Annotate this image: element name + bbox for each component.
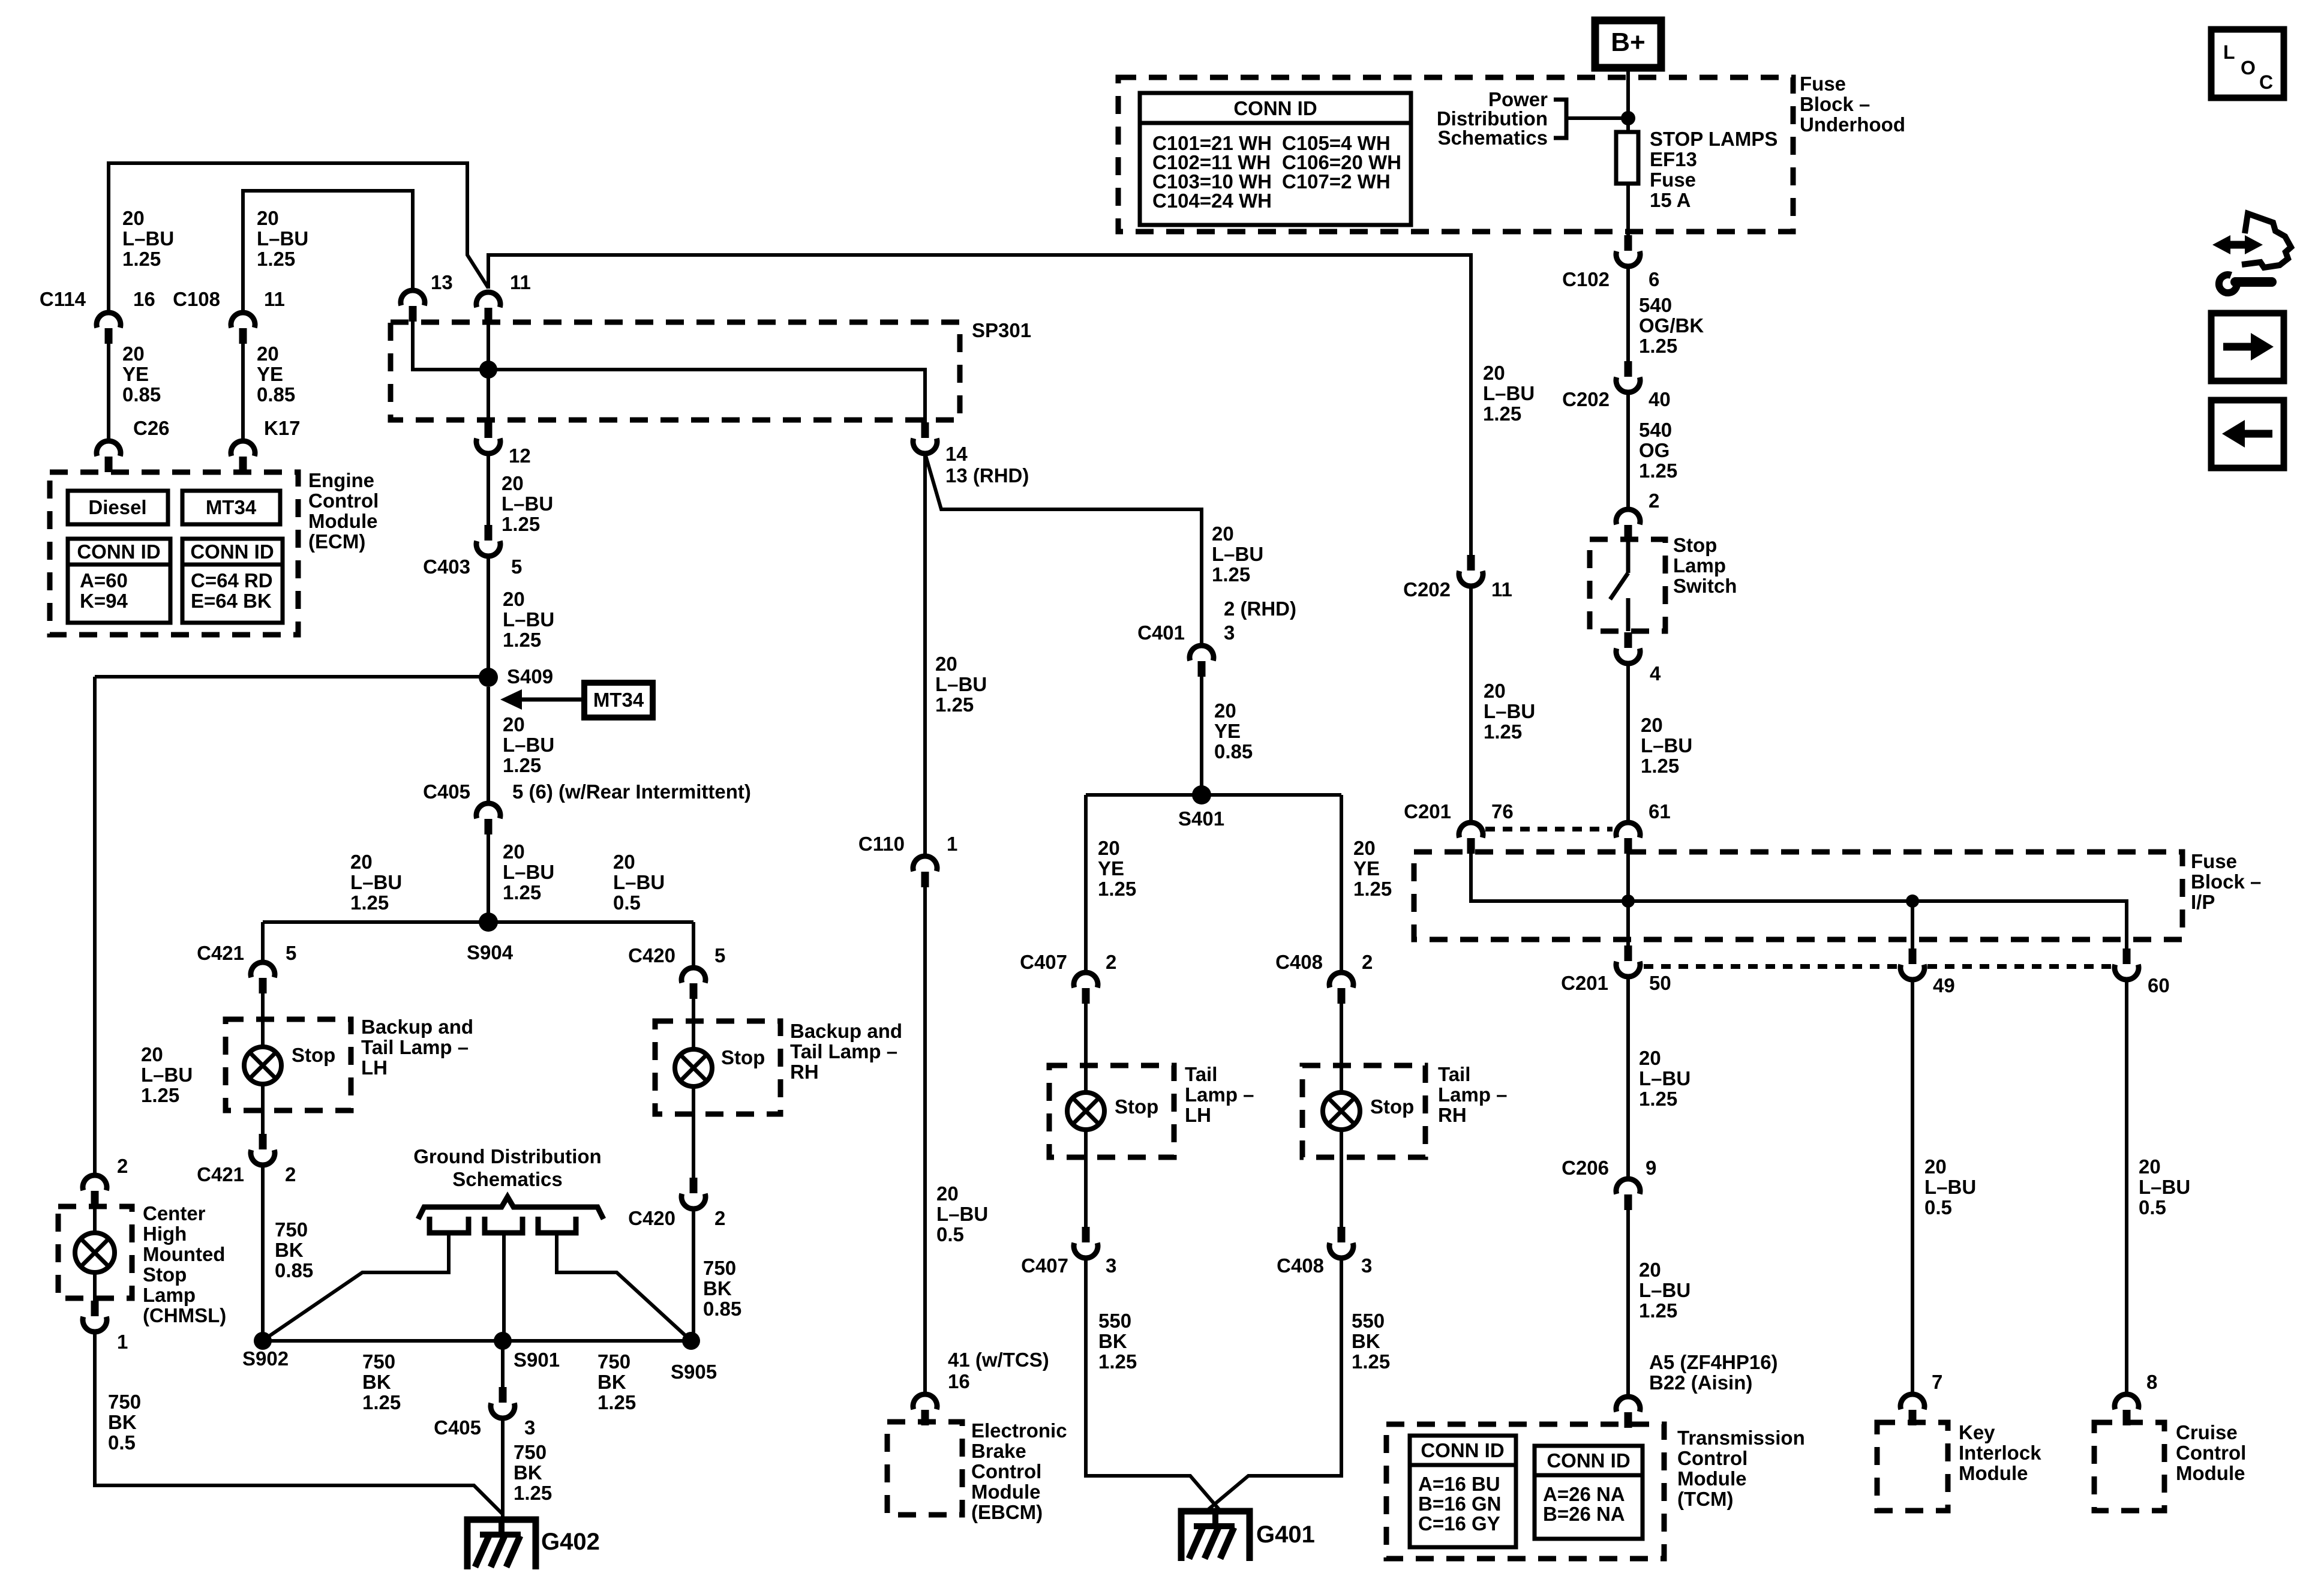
svg-text:540: 540 [1639,419,1672,441]
junction SP301 internal [479,361,497,379]
svg-text:High: High [143,1223,187,1245]
wire SP301 internal bus [413,322,925,422]
svg-text:0.5: 0.5 [1924,1196,1952,1218]
connector C201 pin 61 [1616,822,1640,854]
icon box arrow left [2211,400,2284,468]
svg-text:1.25: 1.25 [597,1391,636,1413]
switch box Stop Lamp Switch [1590,539,1665,631]
svg-text:MT34: MT34 [593,689,644,711]
table CONN ID (Diesel) [68,539,170,623]
svg-text:16: 16 [948,1370,970,1392]
connector TCM [1616,1397,1640,1428]
connector C420 pin 2 [681,1178,705,1209]
lamp Stop (backup/tail LH) [244,1047,281,1084]
wire S904 to C420-5 [692,922,695,968]
lamp CHMSL [75,1233,115,1272]
wire C201-50 to C206 [1626,978,1630,1179]
flag box MT34 [584,683,653,718]
svg-text:20: 20 [257,207,279,229]
svg-text:Tail: Tail [1438,1063,1470,1085]
splice S901 [494,1332,512,1350]
lamp box Backup and Tail Lamp LH [226,1019,351,1110]
svg-text:K=94: K=94 [80,590,128,612]
svg-text:A5 (ZF4HP16): A5 (ZF4HP16) [1649,1351,1778,1373]
wire C206 to TCM [1626,1210,1630,1395]
svg-text:L–BU: L–BU [257,227,308,250]
wire fuse to C102 [1626,184,1630,235]
rule CONN ID header (underhood) [1140,121,1411,125]
svg-text:20: 20 [1639,1047,1661,1069]
icon vehicle diagnostic [2222,241,2253,249]
wire C110 to EBCM [923,887,927,1392]
svg-text:Electronic: Electronic [971,1419,1067,1442]
svg-text:C206: C206 [1562,1157,1609,1179]
svg-text:K17: K17 [264,417,301,439]
svg-text:CONN ID: CONN ID [77,541,160,563]
svg-text:41 (w/TCS): 41 (w/TCS) [948,1349,1049,1371]
wire tail lamp LH out [1084,1130,1088,1228]
wire C420-2 to S905 [692,1209,695,1341]
svg-text:Lamp: Lamp [1673,554,1726,577]
ground receptacle 2 [485,1217,523,1233]
box MT34 variant [182,491,280,524]
svg-text:LH: LH [361,1056,388,1079]
wire C405-3 to G402 [501,1418,505,1533]
svg-text:S904: S904 [467,941,514,963]
svg-text:C201: C201 [1404,800,1451,822]
svg-text:C420: C420 [628,944,675,966]
svg-text:C202: C202 [1403,578,1451,601]
svg-text:20: 20 [1484,680,1506,702]
connector C405 pin 5 [476,803,500,834]
svg-text:Stop: Stop [292,1044,335,1066]
connector 13 (SP301) [401,290,425,322]
svg-text:1.25: 1.25 [1098,1350,1137,1373]
wire ground bus S902-S905 [263,1339,691,1343]
svg-text:2: 2 [1106,951,1116,973]
box Diesel [68,491,168,524]
svg-text:Block –: Block – [1800,93,1870,115]
svg-text:20: 20 [935,653,957,675]
wire C408 into tail lamp RH [1340,1004,1343,1093]
svg-text:Cruise: Cruise [2176,1421,2238,1443]
svg-text:1.25: 1.25 [514,1482,552,1504]
svg-text:20: 20 [613,851,635,873]
svg-text:1.25: 1.25 [1641,755,1679,777]
connector switch pin 4 [1616,632,1640,664]
svg-text:Module: Module [971,1481,1040,1503]
switch blade stop lamp switch [1610,539,1628,631]
svg-text:C408: C408 [1275,951,1323,973]
ground receptacle 3 [538,1217,576,1233]
svg-text:3: 3 [1106,1254,1116,1277]
connector C201 pin 49 [1900,948,1924,980]
svg-text:750: 750 [703,1257,736,1279]
svg-text:20: 20 [1214,700,1236,722]
svg-text:Lamp: Lamp [143,1284,196,1306]
connector CHMSL pin 1 [83,1301,107,1332]
wire tail lamp RH out [1340,1130,1343,1228]
connector C403 pin 5 [476,525,500,556]
svg-text:(CHMSL): (CHMSL) [143,1304,226,1326]
svg-text:RH: RH [1438,1104,1467,1126]
svg-text:EF13: EF13 [1650,148,1697,170]
svg-text:Switch: Switch [1673,575,1737,597]
connector C201 pin 60 [2115,948,2139,980]
svg-text:2: 2 [1362,951,1373,973]
svg-text:L–BU: L–BU [1483,382,1535,404]
svg-text:Control: Control [2176,1442,2246,1464]
rule CONN ID header (TCM 1) [1410,1463,1516,1467]
svg-text:1.25: 1.25 [935,694,974,716]
svg-text:13: 13 [431,271,453,293]
svg-text:BK: BK [1352,1330,1380,1352]
wire S901 to C405-3 [501,1341,505,1388]
svg-text:20: 20 [257,343,279,365]
svg-text:0.85: 0.85 [703,1298,741,1320]
svg-text:Interlock: Interlock [1959,1442,2041,1464]
wire switch to C201-61 [1626,664,1630,821]
svg-text:20: 20 [141,1043,163,1065]
lamp Stop (tail LH) [1067,1092,1104,1130]
svg-text:750: 750 [362,1350,395,1373]
svg-text:L–BU: L–BU [502,493,553,515]
wire S409 to left run [95,675,488,679]
callout arrow MT34 [520,698,585,702]
svg-text:20: 20 [1212,523,1234,545]
wire 12 to C403 [487,454,490,526]
svg-text:750: 750 [108,1391,141,1413]
wire C407-3 to G401 [1086,1258,1220,1510]
svg-text:C202: C202 [1562,388,1610,410]
svg-text:20: 20 [936,1182,959,1205]
svg-text:Schematics: Schematics [1438,127,1548,149]
wire C407 into tail lamp LH [1084,1004,1088,1093]
wire C421 into lamp LH [261,993,265,1047]
wire I/P to 49 [1911,901,1914,948]
splice S401 [1192,785,1211,804]
svg-text:20: 20 [1483,362,1505,384]
svg-text:20: 20 [1639,1259,1661,1281]
splice S409 [479,668,498,687]
lamp box CHMSL [58,1206,132,1298]
wire S401 horizontal [1086,793,1341,797]
module box TCM [1386,1424,1664,1559]
connector cruise control pin 8 [2115,1394,2139,1425]
svg-text:4: 4 [1650,662,1661,685]
connector C408 pin 3 [1329,1227,1353,1258]
svg-text:0.5: 0.5 [936,1223,964,1245]
svg-text:50: 50 [1649,972,1671,994]
svg-text:CONN ID: CONN ID [1547,1449,1630,1472]
svg-text:L–BU: L–BU [503,861,554,883]
svg-text:20: 20 [122,207,145,229]
svg-text:YE: YE [1353,857,1380,879]
module box EBCM [887,1422,962,1515]
splice S902 [254,1332,272,1350]
svg-text:11: 11 [1491,578,1512,601]
connector K17 (ECM) [231,441,255,472]
svg-text:L–BU: L–BU [350,871,402,893]
connector C206 pin 9 [1616,1179,1640,1210]
rule CONN ID header (MT34) [182,563,283,567]
svg-text:1.25: 1.25 [503,629,541,651]
svg-text:A=16 BU: A=16 BU [1418,1473,1500,1495]
svg-text:Tail Lamp –: Tail Lamp – [361,1036,469,1058]
svg-text:20: 20 [350,851,373,873]
svg-text:Stop: Stop [143,1263,187,1286]
svg-text:S409: S409 [507,665,553,688]
lamp box Tail Lamp LH [1049,1065,1174,1157]
svg-text:1.25: 1.25 [141,1084,179,1106]
svg-text:15 A: 15 A [1650,189,1691,211]
svg-text:S905: S905 [671,1361,717,1383]
svg-text:3: 3 [1361,1254,1372,1277]
svg-text:5: 5 [714,944,725,966]
connector C401 pin 3 [1190,646,1214,677]
connector switch pin 2 [1616,509,1640,541]
lamp Stop (tail RH) [1323,1092,1360,1130]
wire 60 to cruise control module [2125,980,2128,1392]
connector C201 pin 76 [1459,822,1483,854]
wire receptacle1 to S902 [264,1233,449,1340]
svg-text:L: L [2223,41,2235,63]
svg-text:7: 7 [1932,1371,1942,1393]
svg-text:Brake: Brake [971,1440,1026,1462]
svg-text:20: 20 [1924,1155,1947,1178]
svg-text:C408: C408 [1277,1254,1324,1277]
wire C401 to S401 [1200,677,1203,795]
battery feed B+ box [1595,20,1661,68]
connector 11 (SP301) [476,292,500,323]
svg-text:14: 14 [945,443,968,465]
svg-text:Lamp –: Lamp – [1438,1083,1508,1106]
svg-text:Control: Control [308,490,379,512]
fuse STOP LAMPS EF13 15A [1616,132,1638,184]
svg-text:1.25: 1.25 [1212,563,1250,586]
svg-text:1.25: 1.25 [1352,1350,1390,1373]
wire 11 through SP301 [487,323,490,425]
svg-text:L–BU: L–BU [2139,1176,2190,1198]
svg-text:3: 3 [1224,622,1235,644]
svg-text:1.25: 1.25 [503,881,541,903]
connector C420 pin 5 [681,968,705,999]
splice pack box SP301 [391,322,960,420]
wire fuse block I/P internal bus [1471,854,2127,948]
svg-text:L–BU: L–BU [613,871,665,893]
lamp box Tail Lamp RH [1302,1065,1425,1157]
connector C407 pin 3 [1074,1227,1098,1258]
svg-text:Mounted: Mounted [143,1243,225,1265]
wire B+ to fuse [1626,68,1630,132]
svg-text:Module: Module [1677,1467,1746,1490]
svg-text:S902: S902 [242,1347,289,1370]
svg-text:1.25: 1.25 [122,248,161,270]
module box Key Interlock Module [1877,1422,1948,1511]
svg-text:A=26 NA: A=26 NA [1543,1483,1625,1505]
ground G401 [1181,1508,1250,1561]
icon box LOC [2211,29,2284,98]
connector CHMSL pin 2 [83,1175,107,1206]
wire C114 to C26 [107,344,110,439]
svg-text:B=16 GN: B=16 GN [1418,1493,1501,1515]
svg-text:C407: C407 [1021,1254,1068,1277]
connector C26 (ECM) [97,441,121,472]
svg-text:12: 12 [509,445,531,467]
svg-text:Module: Module [1959,1462,2028,1484]
svg-text:C26: C26 [133,417,170,439]
svg-text:5 (6) (w/Rear Intermittent): 5 (6) (w/Rear Intermittent) [512,781,751,803]
svg-text:Backup and: Backup and [790,1020,902,1042]
table CONN ID (underhood) [1140,93,1411,225]
ground receptacle 1 [430,1217,469,1233]
svg-text:1.25: 1.25 [502,513,540,535]
fuse block box Fuse Block - I/P [1414,852,2182,939]
svg-text:C=16 GY: C=16 GY [1418,1512,1500,1535]
svg-text:0.5: 0.5 [108,1431,136,1454]
svg-text:BK: BK [108,1411,137,1433]
wire C403 to S409 [487,556,490,677]
svg-text:13 (RHD): 13 (RHD) [945,464,1029,487]
svg-text:Engine: Engine [308,469,374,491]
splice S905 [682,1332,700,1350]
svg-text:STOP LAMPS: STOP LAMPS [1650,128,1777,150]
svg-text:49: 49 [1933,974,1955,996]
connector tie line C201 76-61 [1485,827,1613,831]
svg-text:RH: RH [790,1061,819,1083]
wire 14 to C110 [923,454,927,854]
svg-text:76: 76 [1491,800,1514,822]
connector C114 pin 16 [97,313,121,344]
svg-text:750: 750 [275,1218,308,1241]
svg-text:1.25: 1.25 [1639,1088,1677,1110]
wire C421-2 to S902 [261,1165,265,1341]
connector C408 pin 2 [1329,972,1353,1004]
svg-text:S901: S901 [514,1349,560,1371]
table CONN ID (MT34) [182,539,283,623]
svg-text:Fuse: Fuse [1800,73,1846,95]
wire lamp RH to C420-2 [692,1086,695,1179]
svg-text:YE: YE [257,363,283,385]
svg-text:G402: G402 [541,1529,600,1555]
svg-text:1.25: 1.25 [1483,403,1521,425]
connector C405 pin 3 [491,1387,515,1418]
svg-text:Key: Key [1959,1421,1995,1443]
svg-text:BK: BK [597,1371,626,1393]
svg-text:1.25: 1.25 [257,248,295,270]
module box Engine Control Module (ECM) [50,472,298,635]
svg-text:G401: G401 [1256,1521,1315,1548]
svg-text:YE: YE [1098,857,1124,879]
svg-text:Schematics: Schematics [452,1168,562,1190]
svg-text:C421: C421 [197,942,244,964]
wire S401 to C408 [1340,795,1343,970]
splice S904 [479,912,498,932]
svg-text:CONN ID: CONN ID [1233,97,1317,119]
table CONN ID (TCM 1) [1410,1436,1516,1547]
svg-text:C108: C108 [173,288,220,310]
svg-text:(TCM): (TCM) [1677,1488,1733,1510]
rule CONN ID header (Diesel) [68,563,170,567]
svg-text:L–BU: L–BU [122,227,174,250]
junction I/P bus at 50-drop [1622,894,1635,908]
svg-text:C420: C420 [628,1207,675,1229]
svg-text:L–BU: L–BU [503,608,554,631]
svg-text:1: 1 [947,833,957,855]
wire C202-11 to C201-76 [1469,586,1473,821]
wire 49 to key interlock module [1911,980,1914,1392]
svg-text:C=64 RD: C=64 RD [191,569,273,592]
connector 12 (SP301 out) [476,422,500,454]
svg-text:1.25: 1.25 [503,754,541,776]
svg-text:20: 20 [1353,837,1376,859]
wire to power distribution callout [1567,116,1628,120]
svg-text:Module: Module [2176,1462,2245,1484]
connector 14 (SP301 out) [913,422,937,454]
svg-text:L–BU: L–BU [935,673,987,695]
svg-text:L–BU: L–BU [503,734,554,756]
connector C201 pin 50 [1616,945,1640,977]
table CONN ID (TCM 2) [1535,1446,1643,1539]
svg-text:A=60: A=60 [80,569,128,592]
wire C405 to S904 [487,834,490,922]
svg-text:540: 540 [1639,294,1672,316]
svg-text:Diesel: Diesel [88,496,146,518]
wire S904 to C421-5 [261,922,265,962]
fuse block box Fuse Block - Underhood [1118,77,1793,232]
junction I/P bus at 49-drop [1906,894,1919,908]
wire lamp LH to C421-2 [261,1084,265,1135]
svg-text:YE: YE [122,363,149,385]
svg-text:5: 5 [286,942,296,964]
svg-text:20: 20 [503,840,525,863]
svg-text:1.25: 1.25 [1353,878,1392,900]
connector tie line C201 50-49-60 [1644,964,2112,969]
svg-text:Backup and: Backup and [361,1016,473,1038]
svg-text:Transmission: Transmission [1677,1427,1805,1449]
svg-text:LH: LH [1185,1104,1211,1126]
svg-text:Stop: Stop [721,1046,765,1068]
svg-text:Stop: Stop [1673,534,1717,556]
svg-text:1.25: 1.25 [1639,1299,1677,1322]
connector C421 pin 5 [251,962,275,993]
svg-text:16: 16 [133,288,155,310]
svg-text:20: 20 [503,713,525,736]
svg-text:O: O [2241,57,2256,79]
svg-text:C405: C405 [434,1416,481,1439]
svg-text:BK: BK [703,1277,732,1299]
connector C421 pin 2 [251,1134,275,1165]
module box Cruise Control Module [2094,1422,2164,1511]
wire CHMSL return to G402 [95,1332,503,1514]
wire C108-11 to 13 run [243,191,413,311]
svg-text:Stop: Stop [1115,1095,1158,1118]
svg-text:Module: Module [308,510,377,532]
svg-text:C403: C403 [423,556,470,578]
svg-text:SP301: SP301 [972,319,1031,341]
svg-text:BK: BK [362,1371,391,1393]
connector C407 pin 2 [1074,972,1098,1004]
svg-text:0.5: 0.5 [613,891,641,914]
svg-text:BK: BK [275,1239,304,1261]
svg-text:1.25: 1.25 [350,891,389,914]
svg-text:C421: C421 [197,1163,244,1185]
connector C110 pin 1 [913,856,937,887]
svg-text:2 (RHD): 2 (RHD) [1224,598,1296,620]
svg-text:1: 1 [117,1331,128,1353]
svg-text:C: C [2259,71,2273,93]
svg-text:20: 20 [122,343,145,365]
